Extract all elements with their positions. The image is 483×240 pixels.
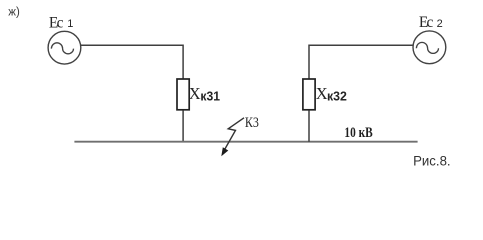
- svg-text:Рис.8.: Рис.8.: [413, 153, 451, 169]
- wire Xк32 corner to G2: [309, 44, 413, 46]
- svg-text:Eс1: Eс1: [49, 14, 74, 31]
- wire corner down to Xк31: [182, 45, 184, 80]
- sine wave inside G2: [416, 42, 438, 53]
- svg-text:ж): ж): [8, 6, 20, 18]
- svg-text:Xк31: Xк31: [189, 84, 220, 104]
- busbar 10 kV: [74, 141, 417, 143]
- sine wave inside G1: [51, 43, 73, 54]
- reactor Xк32 rectangle: [303, 79, 315, 110]
- wire Xк31 to busbar: [182, 110, 184, 141]
- svg-text:10 кВ: 10 кВ: [344, 125, 373, 141]
- short-circuit lightning arrow K3: [224, 118, 245, 152]
- AC source G1 circle: [48, 31, 81, 64]
- arrowhead of K3: [221, 147, 228, 156]
- svg-text:Xк32: Xк32: [316, 84, 347, 104]
- wire G1 to corner above Xк31: [81, 44, 183, 46]
- wire Xк32 to busbar: [308, 110, 310, 141]
- wire corner down to Xк32: [308, 45, 310, 80]
- svg-text:К3: К3: [245, 115, 259, 131]
- svg-text:Eс2: Eс2: [419, 14, 443, 31]
- reactor Xк31 rectangle: [177, 79, 189, 110]
- AC source G2 circle: [413, 31, 446, 64]
